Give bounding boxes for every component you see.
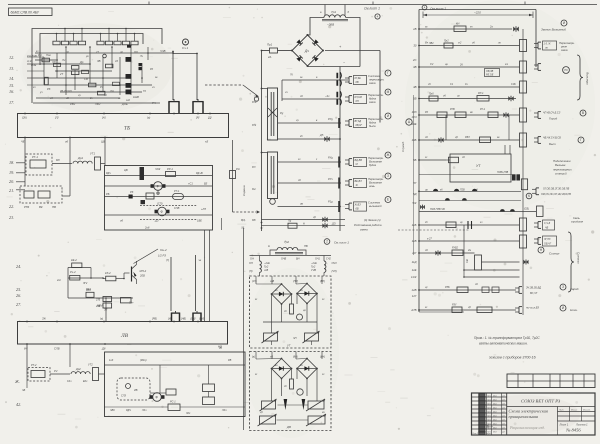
diode VD1 pair [139, 63, 142, 66]
svg-text:ЧЧВ: ЧЧВ [160, 49, 166, 53]
connector X7 [537, 42, 539, 49]
bridge top lead [307, 34, 309, 36]
relay block inner short stub [221, 218, 223, 230]
zone divider line [413, 95, 415, 255]
ladder rung 4 wire diode [278, 138, 341, 140]
paper scan noise [382, 15, 383, 16]
relay coil 290 [457, 287, 468, 293]
svg-text:Лдп: Лдп [221, 409, 227, 412]
svg-text:Рч-2: Рч-2 [70, 270, 76, 274]
svg-text:5Ж: 5Ж [412, 201, 417, 205]
svg-text:Др1: Др1 [77, 156, 84, 160]
ladder rung 3 wire [278, 122, 341, 124]
svg-text:10З: 10З [412, 110, 417, 114]
relay coil 208 [537, 206, 544, 217]
fuse F1 dark [140, 167, 145, 180]
circled letter I2 [560, 305, 566, 311]
svg-text:чв,чз,сл,ВЗ: чв,чз,сл,ВЗ [526, 307, 539, 310]
block2 top inner wire [105, 364, 246, 366]
transformer T1 winding [324, 15, 346, 18]
svg-text:А: А [424, 6, 426, 10]
svg-text:Ф: Ф [155, 396, 158, 400]
svg-text:ЦВ: ЦВ [101, 140, 105, 144]
circled letter G2 [578, 137, 584, 143]
svg-text:ОЧЗ: ОЧЗ [332, 262, 338, 265]
svg-text:ВД.: ВД. [241, 218, 246, 222]
rectifier bridge VD4 [292, 35, 323, 66]
svg-text:Н: Н [303, 222, 305, 226]
connector X13 [537, 238, 539, 245]
svg-text:А,Э: А,Э [26, 59, 32, 63]
right section coil rail [522, 29, 524, 315]
svg-text:+С1: +С1 [188, 182, 193, 186]
svg-text:УЧВ: УЧВ [311, 269, 316, 272]
contact 225 [446, 222, 456, 228]
svg-text:1об: 1об [109, 359, 114, 362]
circled letter Z [560, 284, 566, 290]
fuse Pr2 [444, 43, 453, 48]
svg-text:принципиальная: принципиальная [509, 414, 538, 419]
relay coil PV2 vertical [520, 61, 527, 73]
svg-text:−: − [343, 61, 345, 65]
svg-text:вызывной: вызывной [369, 204, 382, 208]
cap pair 225 [467, 221, 469, 229]
plug contact P4 on bus LV [192, 314, 194, 322]
ladder left rail [261, 51, 263, 232]
resistor R4-2 [70, 275, 80, 280]
svg-text:НШб: НШб [133, 95, 139, 99]
svg-text:15.: 15. [9, 83, 14, 88]
svg-text:ОГ,ОЕ,ОВ,ЗГ,ЗЕ,ОВ,ПВ: ОГ,ОЕ,ОВ,ЗГ,ЗЕ,ОВ,ПВ [543, 188, 570, 191]
plug contact P2 on bus TB [192, 102, 194, 113]
block dashed row b [140, 219, 197, 221]
svg-text:4В: 4В [413, 85, 417, 89]
svg-text:СЛЗ: СЛЗ [121, 395, 126, 398]
relay coil PV6 vertical [520, 235, 527, 248]
amp top wire [68, 267, 91, 269]
capacitor C5 vertical [520, 81, 527, 93]
capacitor C3 C4 electrolytic [336, 92, 338, 98]
svg-text:Лкт: Лкт [486, 403, 491, 405]
svg-text:82.: 82. [252, 187, 256, 191]
svg-text:Р1g: Р1g [328, 200, 333, 204]
switch blades box B [284, 399, 288, 410]
title block main frame [472, 393, 596, 435]
title block left table verticals [478, 393, 480, 435]
svg-text:30: 30 [413, 44, 417, 48]
svg-text:5Г: 5Г [413, 181, 417, 185]
resistor R9 [42, 58, 49, 62]
row zaryad: wire [419, 289, 516, 291]
svg-text:Сигнал: Сигнал [549, 252, 560, 256]
svg-text:К: К [528, 194, 530, 198]
svg-text:Переговорн.: Переговорн. [368, 93, 384, 97]
transistor collector emitter wires [136, 261, 138, 265]
svg-text:Ф: Ф [156, 185, 159, 189]
svg-text:22.: 22. [9, 204, 14, 209]
svg-text:(ВН): (ВН) [320, 280, 325, 283]
svg-text:РУg: РУg [328, 117, 333, 121]
block row wire 4 [105, 214, 213, 216]
block2 wires [159, 365, 161, 393]
svg-text:Лдч: Лдч [141, 409, 147, 412]
svg-text:была: была [369, 124, 376, 128]
svg-text:6Н: 6Н [356, 100, 359, 103]
ground symbol M1 [157, 191, 159, 194]
title block upper strip [507, 374, 595, 388]
svg-text:М12: М12 [86, 289, 91, 292]
rail wire to relay K1 [172, 52, 174, 101]
svg-text:Сдч: Сдч [67, 380, 72, 383]
svg-text:П1В ПЗВ ЧВ: П1В ПЗВ ЧВ [430, 208, 445, 211]
resistor SSh vertical [475, 255, 482, 270]
black contact arcs row 208 [500, 209, 505, 211]
svg-text:1В: 1В [413, 27, 417, 31]
svg-text:городская: городская [571, 221, 584, 224]
drawing sheet top border [8, 4, 597, 6]
plug contact P1 on bus TB [168, 102, 170, 113]
svg-text:ВЗ: ВЗ [204, 182, 208, 186]
signature smudge column [479, 394, 485, 435]
svg-text:(2К): (2К) [22, 116, 27, 120]
filter brace [577, 55, 583, 100]
wire RT1 to Dr1 [52, 163, 72, 165]
connector X8 [537, 64, 539, 71]
svg-text:РЧ: РЧ [38, 53, 42, 57]
svg-text:Ночн.: Ночн. [570, 308, 578, 312]
wire VK to drop B [62, 195, 70, 197]
row 160 wire [419, 159, 446, 161]
ladder bottom row 1 wire [262, 219, 346, 221]
svg-text:6БМ2.СЛВ.00.4БУ: 6БМ2.СЛВ.00.4БУ [11, 11, 40, 15]
circled letter Г [385, 70, 391, 76]
relay coil PV5 vertical [520, 218, 527, 231]
relay RBZ coil [480, 137, 491, 143]
svg-text:ОМ,ОЧ,ОК,ОЛ,ЧЕ,ЧВ,Б,НВ: ОМ,ОЧ,ОК,ОЛ,ЧЕ,ЧВ,Б,НВ [541, 193, 571, 196]
relay block 2 frame [105, 352, 246, 417]
circled letter V [580, 110, 586, 116]
thermal relay RT-1 dashed box [26, 154, 52, 175]
svg-text:Вызывная: Вызывная [369, 181, 382, 185]
svg-text:ЧЕ: ЧЕ [21, 140, 25, 144]
wire drop A [24, 138, 26, 187]
svg-text:[Л]: [Л] [54, 116, 59, 120]
svg-text:11Е: 11Е [412, 268, 417, 272]
upper-left block inner wire [40, 34, 143, 66]
svg-text:Лкт: Лкт [486, 415, 491, 417]
svg-text:2гп: 2гп [56, 279, 62, 282]
svg-text:2об: 2об [144, 226, 150, 230]
bus LV dots [26, 321, 28, 323]
svg-text:МП-2: МП-2 [140, 269, 147, 273]
UT block риser wires [504, 145, 506, 154]
svg-text:П1ВЧ,ПЗВ: П1ВЧ,ПЗВ [497, 172, 509, 174]
diode VD12 [508, 96, 511, 101]
upper-left block outer wire [32, 29, 162, 104]
svg-text:Он-2: Он-2 [160, 248, 167, 252]
svg-text:РУ-1: РУ-1 [480, 108, 486, 111]
svg-text:Переговорн.: Переговорн. [368, 117, 384, 121]
transformer T2 winding [277, 247, 298, 250]
resistor R13 [89, 83, 96, 87]
svg-text:СВ: СВ [84, 77, 88, 81]
svg-text:Пчм: Пчм [46, 54, 51, 57]
heater element E1 tall [268, 88, 278, 140]
svg-text:3В: 3В [413, 65, 417, 69]
svg-text:УТ: УТ [287, 344, 291, 348]
resistor row R1-R4 group [53, 41, 60, 45]
svg-text:об: об [65, 140, 68, 144]
svg-text:Прим.: 1. № трансформаторов Т: Прим.: 1. № трансформаторов Тр1Б, Тр2С [474, 336, 540, 340]
ladder rung 1 wire [282, 79, 340, 81]
svg-text:42.: 42. [16, 402, 21, 407]
circled letter N [538, 247, 544, 253]
right section vertical links [445, 115, 447, 140]
block row wire 3 [105, 196, 213, 198]
wire UT1 to block [101, 163, 106, 165]
svg-text:РУВ: РУВ [450, 108, 455, 111]
svg-text:ВС,ЧТ: ВС,ЧТ [530, 292, 538, 295]
svg-text:Д5: Д5 [319, 133, 324, 137]
svg-text:будка: будка [369, 163, 377, 167]
svg-text:мз: мз [322, 412, 325, 414]
svg-text:87.: 87. [252, 165, 256, 169]
svg-text:РБЧ: РБЧ [70, 102, 75, 106]
bus TB junction dots [24, 113, 26, 115]
rail wire to relay K2 [196, 54, 198, 101]
thermal relay RT-2 dashed box [28, 368, 50, 382]
relay coil 310b [477, 307, 492, 313]
svg-text:ОВ,ЧГ: ОВ,ЧГ [544, 242, 552, 245]
svg-text:(Г): (Г) [166, 259, 169, 262]
extra small box upper block b [82, 70, 89, 73]
connector X14 [518, 287, 520, 294]
svg-text:ОН: ОН [250, 258, 254, 261]
ladder rung 6 wire [278, 182, 341, 184]
relay coil K9 [203, 397, 215, 405]
block row wire 1 [105, 175, 213, 177]
box A internal wires [271, 294, 273, 333]
svg-text:19.: 19. [9, 170, 14, 175]
svg-text:20.: 20. [9, 179, 14, 184]
svg-text:ЛЧ: ЛЧ [109, 89, 114, 93]
svg-text:РУg: РУg [328, 156, 333, 160]
svg-text:станций: станций [555, 172, 567, 176]
leader to half relay label [134, 249, 159, 264]
svg-text:эскизов с приборов 3700-16: эскизов с приборов 3700-16 [489, 356, 536, 360]
svg-text:СЧ2: СЧ2 [326, 258, 331, 261]
svg-text:1-3, Ж: 1-3, Ж [544, 43, 552, 46]
svg-text:ВД,ВВ: ВД,ВВ [355, 159, 363, 162]
border zone tick [148, 2, 150, 5]
svg-text:1ВЕ: 1ВЕ [197, 219, 202, 223]
svg-text:нВ: нВ [270, 356, 273, 359]
right section rail B [535, 10, 537, 68]
relay contact K3 [338, 118, 340, 128]
svg-text:Рационализация изд.: Рационализация изд. [509, 425, 545, 430]
circled letter I bell [561, 20, 567, 26]
box A bottom bus [263, 321, 317, 323]
transformer T1 primary leads to mains [324, 5, 326, 16]
block row wire 2 [105, 185, 213, 187]
node L3 circle [254, 97, 258, 101]
svg-text:2Т: 2Т [59, 72, 63, 76]
connector X10 [537, 137, 539, 144]
svg-text:РДч: РДч [106, 171, 111, 175]
resistor KE-2 [72, 263, 82, 268]
svg-text:2б: 2б [459, 64, 463, 67]
svg-text:ЛБЧ: ЛБЧ [94, 102, 100, 106]
svg-text:ЧБ: ЧБ [22, 389, 26, 392]
svg-text:ОН: ОН [249, 262, 253, 265]
svg-text:ЦВ: ЦВ [124, 168, 128, 172]
svg-text:Лкт: Лкт [486, 395, 491, 397]
svg-text:я 27: я 27 [426, 238, 432, 241]
svg-text:~220: ~220 [474, 11, 481, 15]
svg-text:6Л,6М: 6Л,6М [355, 96, 363, 99]
svg-text:~3ч: ~3ч [325, 94, 330, 98]
transistor MP-2 [123, 273, 125, 279]
relay RR-1 coil right [477, 96, 489, 102]
svg-text:М8: М8 [56, 158, 60, 162]
extra mesh wires left part [27, 56, 44, 58]
svg-text:Ж: Ж [387, 153, 390, 157]
svg-text:цм: цм [300, 203, 303, 206]
svg-text:П2В: П2В [460, 189, 465, 192]
potentiometer RP6 [308, 416, 325, 424]
svg-text:2А: 2А [267, 55, 272, 59]
svg-text:Лит: Лит [558, 409, 564, 411]
svg-text:РР-1: РР-1 [167, 167, 173, 171]
svg-text:12Г: 12Г [412, 294, 417, 298]
resistor R15 [98, 91, 105, 95]
svg-text:6Г,6Е: 6Г,6Е [355, 77, 362, 80]
list row line [558, 420, 596, 422]
svg-text:27Б: 27Б [95, 299, 101, 302]
switch S1 dark square [141, 200, 146, 204]
svg-text:27.: 27. [16, 302, 21, 307]
svg-text:А7В: А7В [410, 308, 416, 312]
svg-text:новь: новь [369, 185, 375, 188]
minus output wire [307, 66, 309, 69]
svg-text:ЧОК: ЧОК [155, 167, 161, 171]
mesh vertical wires [65, 47, 67, 95]
svg-text:(ЬН): (ЬН) [320, 356, 325, 359]
svg-text:Едч: Едч [129, 302, 134, 305]
plug contact P3 on bus LV [171, 314, 173, 322]
svg-text:будка: будка [369, 121, 377, 125]
svg-text:УТ1: УТ1 [90, 152, 95, 156]
measurement unit dashed box B [250, 352, 332, 431]
svg-text:С1Б: С1Б [511, 83, 516, 86]
svg-text:РТ-1: РТ-1 [32, 155, 38, 159]
svg-text:ЗЗ.: ЗЗ. [241, 226, 245, 230]
fuse Pr6 [429, 96, 438, 101]
svg-text:Дч: Дч [304, 49, 309, 53]
svg-text:ВН: ВН [296, 258, 300, 261]
title right sub-table [557, 407, 559, 422]
svg-text:ВГ,6Д: ВГ,6Д [355, 120, 362, 123]
svg-text:РД+В: РД+В [196, 171, 203, 175]
svg-text:7Б,7Л,8Л: 7Б,7Л,8Л [60, 89, 72, 93]
svg-text:6В: 6В [356, 208, 359, 211]
svg-text:кт: кт [505, 63, 508, 66]
relay coil K7 [166, 389, 176, 395]
connector X at rung y183 [348, 180, 350, 187]
svg-text:24.: 24. [16, 264, 21, 269]
svg-text:Др2: Др2 [75, 367, 81, 371]
svg-text:12В: 12В [412, 288, 417, 292]
svg-text:переговорн.: переговорн. [369, 79, 385, 82]
black contact arcs row B [445, 198, 450, 200]
svg-text:ЛВ2: ЛВ2 [428, 42, 434, 45]
right section rail A [418, 10, 420, 313]
circled letter Е [385, 197, 391, 203]
diode VD2 [127, 45, 131, 48]
ladder rung 5 wire [278, 161, 341, 163]
svg-text:УТ2: УТ2 [88, 363, 93, 367]
svg-text:(д) Звонок (з): (д) Звонок (з) [364, 218, 381, 222]
pot connection stubs A [271, 341, 273, 345]
svg-text:(ЧП): (ЧП) [332, 270, 337, 273]
relay Rdch coil [121, 298, 132, 303]
svg-text:6В,6Г: 6В,6Г [356, 124, 363, 127]
svg-text:Пр1: Пр1 [267, 43, 273, 47]
svg-text:10Ч: 10Ч [412, 115, 417, 119]
svg-text:ОЧВ: ОЧВ [281, 258, 287, 261]
svg-text:РУч: РУч [328, 177, 333, 181]
diode VD3 [129, 195, 133, 199]
row 208 wire [419, 211, 536, 213]
connector X at rung y123 [348, 120, 350, 127]
diode VD5 [324, 137, 327, 142]
sheet ref circle A [422, 5, 427, 10]
svg-text:взяты автоматических машин.: взяты автоматических машин. [479, 342, 528, 346]
svg-text:РДЧ: РДЧ [126, 409, 131, 412]
relay contact K5 [338, 178, 340, 189]
svg-text:РБ: РБ [106, 192, 110, 196]
svg-text:Ф: Ф [160, 210, 163, 214]
svg-text:7Л: 7Л [52, 60, 55, 64]
svg-text:12.: 12. [9, 55, 14, 60]
contact block VK dashed box [20, 186, 62, 203]
terminal bus TB box [18, 114, 229, 138]
extra small box upper block c [113, 82, 120, 85]
diode VD6 [322, 217, 325, 222]
svg-text:Сигналы: Сигналы [577, 252, 581, 264]
diode VD16 [524, 260, 526, 265]
svg-text:ЧГ,ЧВ,СЧ,Б,СЗ: ЧГ,ЧВ,СЧ,Б,СЗ [543, 112, 561, 115]
dashed arrow to ladder rail [233, 211, 257, 213]
potentiometer RP5 [260, 416, 276, 424]
svg-text:Фильтры: Фильтры [586, 72, 590, 85]
svg-text:Лч: Лч [61, 58, 66, 62]
winding W2 right [324, 261, 326, 272]
row Pr6: wire [419, 98, 516, 100]
junction node circle [103, 54, 107, 58]
circled letter RZ [563, 67, 570, 74]
amp feed to bus LV [105, 302, 107, 322]
fuse Pr4 [288, 223, 297, 228]
capacitor C1 C2 electrolytic [336, 73, 338, 79]
meter PA2 in box B [297, 389, 303, 395]
potentiometer RP2 [305, 333, 319, 341]
svg-text:Г: Г [387, 71, 389, 75]
svg-text:11Д: 11Д [412, 260, 417, 264]
svg-text:Пр2: Пр2 [444, 40, 449, 43]
relay coil K10 [168, 404, 180, 411]
wire RT2 to Dr2 [50, 373, 70, 375]
